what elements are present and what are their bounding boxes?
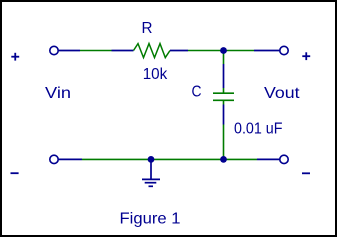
capacitor C bottom lead (navy)	[223, 105, 225, 125]
svg-text:R: R	[142, 20, 153, 37]
resistor R zigzag	[134, 44, 171, 58]
terminal circle: Vout -	[280, 155, 288, 163]
wire: capacitor down to node B (green)	[223, 125, 225, 160]
wire: Vout+ terminal stub	[254, 50, 280, 52]
wire: node A down to capacitor (green)	[223, 51, 225, 65]
terminal circle: Vin -	[50, 155, 58, 163]
resistor R left lead	[112, 50, 134, 52]
capacitor C top lead (navy)	[223, 64, 225, 88]
plus sign (Vout positive)	[302, 52, 310, 60]
wire: bottom green rail	[82, 158, 257, 160]
wire: top-left green segment	[80, 50, 112, 52]
wire: Vin- terminal stub	[59, 158, 82, 160]
wire: resistor to node A (top)	[188, 50, 254, 52]
capacitor C bottom plate	[213, 99, 234, 101]
svg-text:Figure 1: Figure 1	[120, 211, 181, 228]
svg-text:Vin: Vin	[45, 85, 71, 102]
terminal circle: Vin +	[50, 46, 58, 54]
svg-text:0.01 uF: 0.01 uF	[234, 121, 283, 138]
resistor R right lead	[170, 50, 188, 52]
capacitor C bottom stub (green)	[223, 100, 225, 104]
capacitor C top plate	[213, 92, 234, 94]
wire: Vin+ terminal stub	[59, 50, 80, 52]
minus sign (Vout negative)	[302, 172, 310, 174]
plus sign (Vin positive)	[11, 53, 19, 61]
svg-text:Vout: Vout	[264, 85, 300, 102]
node B junction dot (bottom)	[220, 156, 227, 163]
minus sign (Vin negative)	[11, 172, 19, 174]
node A junction dot (top)	[220, 47, 227, 54]
capacitor C top stub (green)	[223, 88, 225, 93]
svg-text:10k: 10k	[143, 66, 168, 83]
ground symbol	[142, 159, 160, 186]
svg-text:C: C	[192, 84, 202, 101]
wire: Vout- terminal stub	[257, 158, 280, 160]
terminal circle: Vout +	[280, 46, 288, 54]
ground junction dot	[148, 156, 155, 163]
